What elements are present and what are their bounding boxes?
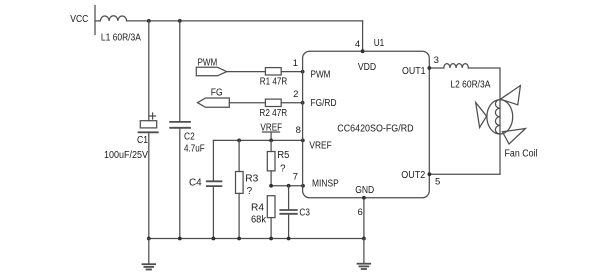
capacitor C3 top plate	[280, 209, 297, 211]
wire bottom rail	[149, 238, 364, 240]
resistor R3	[236, 172, 244, 194]
svg-text:Fan Coil: Fan Coil	[505, 148, 538, 159]
capacitor C1 top plate	[140, 121, 156, 128]
svg-text:GND: GND	[355, 185, 374, 196]
capacitor C1 polarity plus	[150, 113, 156, 119]
junction rail GND	[362, 237, 366, 241]
junction rail C3	[287, 237, 291, 241]
wire C3 lower	[288, 214, 290, 239]
ground right	[358, 239, 371, 270]
wire R2 to pin2	[281, 102, 302, 104]
capacitor C1 bottom plate	[139, 131, 158, 133]
junction pin1	[301, 70, 305, 74]
wire FG to R2	[229, 102, 265, 104]
wire top rail	[127, 20, 363, 22]
junction R5-R4	[269, 184, 273, 188]
svg-text:VCC: VCC	[70, 14, 88, 25]
svg-text:8: 8	[296, 125, 301, 136]
resistor R5	[267, 152, 275, 171]
fan blade top	[500, 86, 520, 105]
junction pin3	[427, 66, 431, 70]
junction rail C4	[212, 237, 216, 241]
svg-text:U1: U1	[374, 38, 385, 49]
svg-text:CC6420SO-FG/RD: CC6420SO-FG/RD	[337, 123, 413, 134]
wire R5 upper	[270, 140, 272, 151]
svg-text:100uF/25V: 100uF/25V	[104, 150, 148, 161]
junction rail R3	[237, 237, 241, 241]
svg-text:VREF: VREF	[309, 140, 331, 151]
inductor L2	[444, 64, 469, 68]
fan motor body	[487, 100, 513, 134]
wire R5 lower	[270, 171, 272, 186]
wire C4 upper	[212, 140, 214, 181]
fan blade left	[476, 103, 487, 128]
VREF label stub	[270, 132, 272, 140]
junction pin5	[428, 172, 432, 176]
wire R4 lower	[270, 218, 272, 239]
wire pin4 vertical	[362, 21, 364, 51]
svg-text:FG: FG	[211, 88, 223, 99]
svg-text:R1 47R: R1 47R	[260, 77, 287, 88]
capacitor C2 top plate	[170, 121, 190, 123]
svg-text:PWM: PWM	[198, 58, 218, 69]
svg-text:PWM: PWM	[311, 70, 331, 81]
svg-text:VDD: VDD	[358, 62, 376, 73]
svg-text:4: 4	[355, 39, 360, 50]
svg-text:R5: R5	[277, 150, 289, 161]
svg-text:4.7uF: 4.7uF	[184, 144, 205, 155]
wire C4 lower	[212, 186, 214, 238]
junction rail C2	[178, 237, 182, 241]
junction pin6	[362, 196, 366, 200]
svg-text:FG/RD: FG/RD	[311, 98, 337, 109]
svg-text:R2 47R: R2 47R	[259, 108, 287, 119]
svg-text:1: 1	[293, 58, 298, 69]
ground left	[143, 239, 156, 270]
svg-text:6: 6	[358, 207, 363, 218]
junction VREF-R3	[237, 139, 241, 143]
svg-text:C4: C4	[189, 178, 202, 189]
junction VREF-R5	[269, 139, 273, 143]
wire C3 upper	[288, 186, 290, 210]
fan blade bottom	[502, 129, 525, 145]
wire C1 upper	[148, 21, 150, 121]
svg-text:C1: C1	[137, 135, 148, 146]
op-amp U1 IC body	[303, 51, 430, 198]
VREF label underline	[263, 131, 280, 133]
wire VREF net	[213, 139, 302, 141]
capacitor C3 bottom plate	[280, 213, 297, 215]
svg-text:OUT1: OUT1	[402, 66, 426, 77]
junction C3 top	[287, 184, 291, 188]
wire fan to pin5	[429, 173, 500, 175]
wire pin6 to ground rail	[363, 198, 365, 239]
wire VCC to L1	[95, 20, 100, 22]
svg-text:3: 3	[434, 55, 439, 66]
fan winding arcs	[495, 100, 500, 134]
resistor R1	[265, 68, 281, 75]
junction pin7	[301, 184, 305, 188]
svg-text:MINSP: MINSP	[312, 178, 339, 189]
junction rail C1	[147, 237, 151, 241]
inductor L1	[100, 16, 126, 21]
junction pin8	[301, 139, 305, 143]
junction C2 top	[178, 19, 182, 23]
svg-text:?: ?	[247, 186, 253, 197]
svg-text:OUT2: OUT2	[401, 170, 425, 181]
svg-text:C2: C2	[184, 132, 195, 143]
svg-text:L2 60R/3A: L2 60R/3A	[450, 79, 490, 90]
wire PWM to R1	[227, 71, 266, 73]
svg-text:C3: C3	[299, 207, 310, 218]
capacitor C4 top plate	[207, 180, 222, 182]
svg-text:R4: R4	[251, 203, 264, 214]
svg-text:68k: 68k	[251, 215, 267, 226]
wire R3 lower	[238, 193, 240, 238]
junction pin2	[301, 101, 305, 105]
wire pin3 to L2	[429, 67, 444, 69]
wire L2 to fan	[468, 68, 500, 174]
wire C1 lower	[148, 132, 150, 238]
resistor R4	[267, 196, 275, 218]
svg-text:5: 5	[435, 177, 440, 188]
svg-text:L1 60R/3A: L1 60R/3A	[101, 33, 141, 44]
wire pin7 net	[271, 185, 303, 187]
VCC terminal bar	[94, 6, 96, 35]
svg-text:?: ?	[280, 163, 286, 174]
capacitor C2 bottom plate	[170, 127, 190, 129]
wire R1 to pin1	[281, 71, 302, 73]
node PWM flag	[196, 67, 226, 76]
resistor R2	[265, 99, 281, 106]
capacitor C4 bottom plate	[207, 185, 222, 187]
node FG flag	[198, 98, 230, 107]
wire C2 lower	[179, 128, 181, 239]
junction pin4	[361, 49, 365, 53]
wire C2 upper	[179, 21, 181, 122]
junction rail R4	[269, 237, 273, 241]
svg-text:2: 2	[293, 89, 298, 100]
junction C1 top	[147, 19, 151, 23]
wire R3 upper	[238, 140, 240, 171]
svg-text:7: 7	[293, 172, 298, 183]
svg-text:R3: R3	[245, 173, 258, 184]
